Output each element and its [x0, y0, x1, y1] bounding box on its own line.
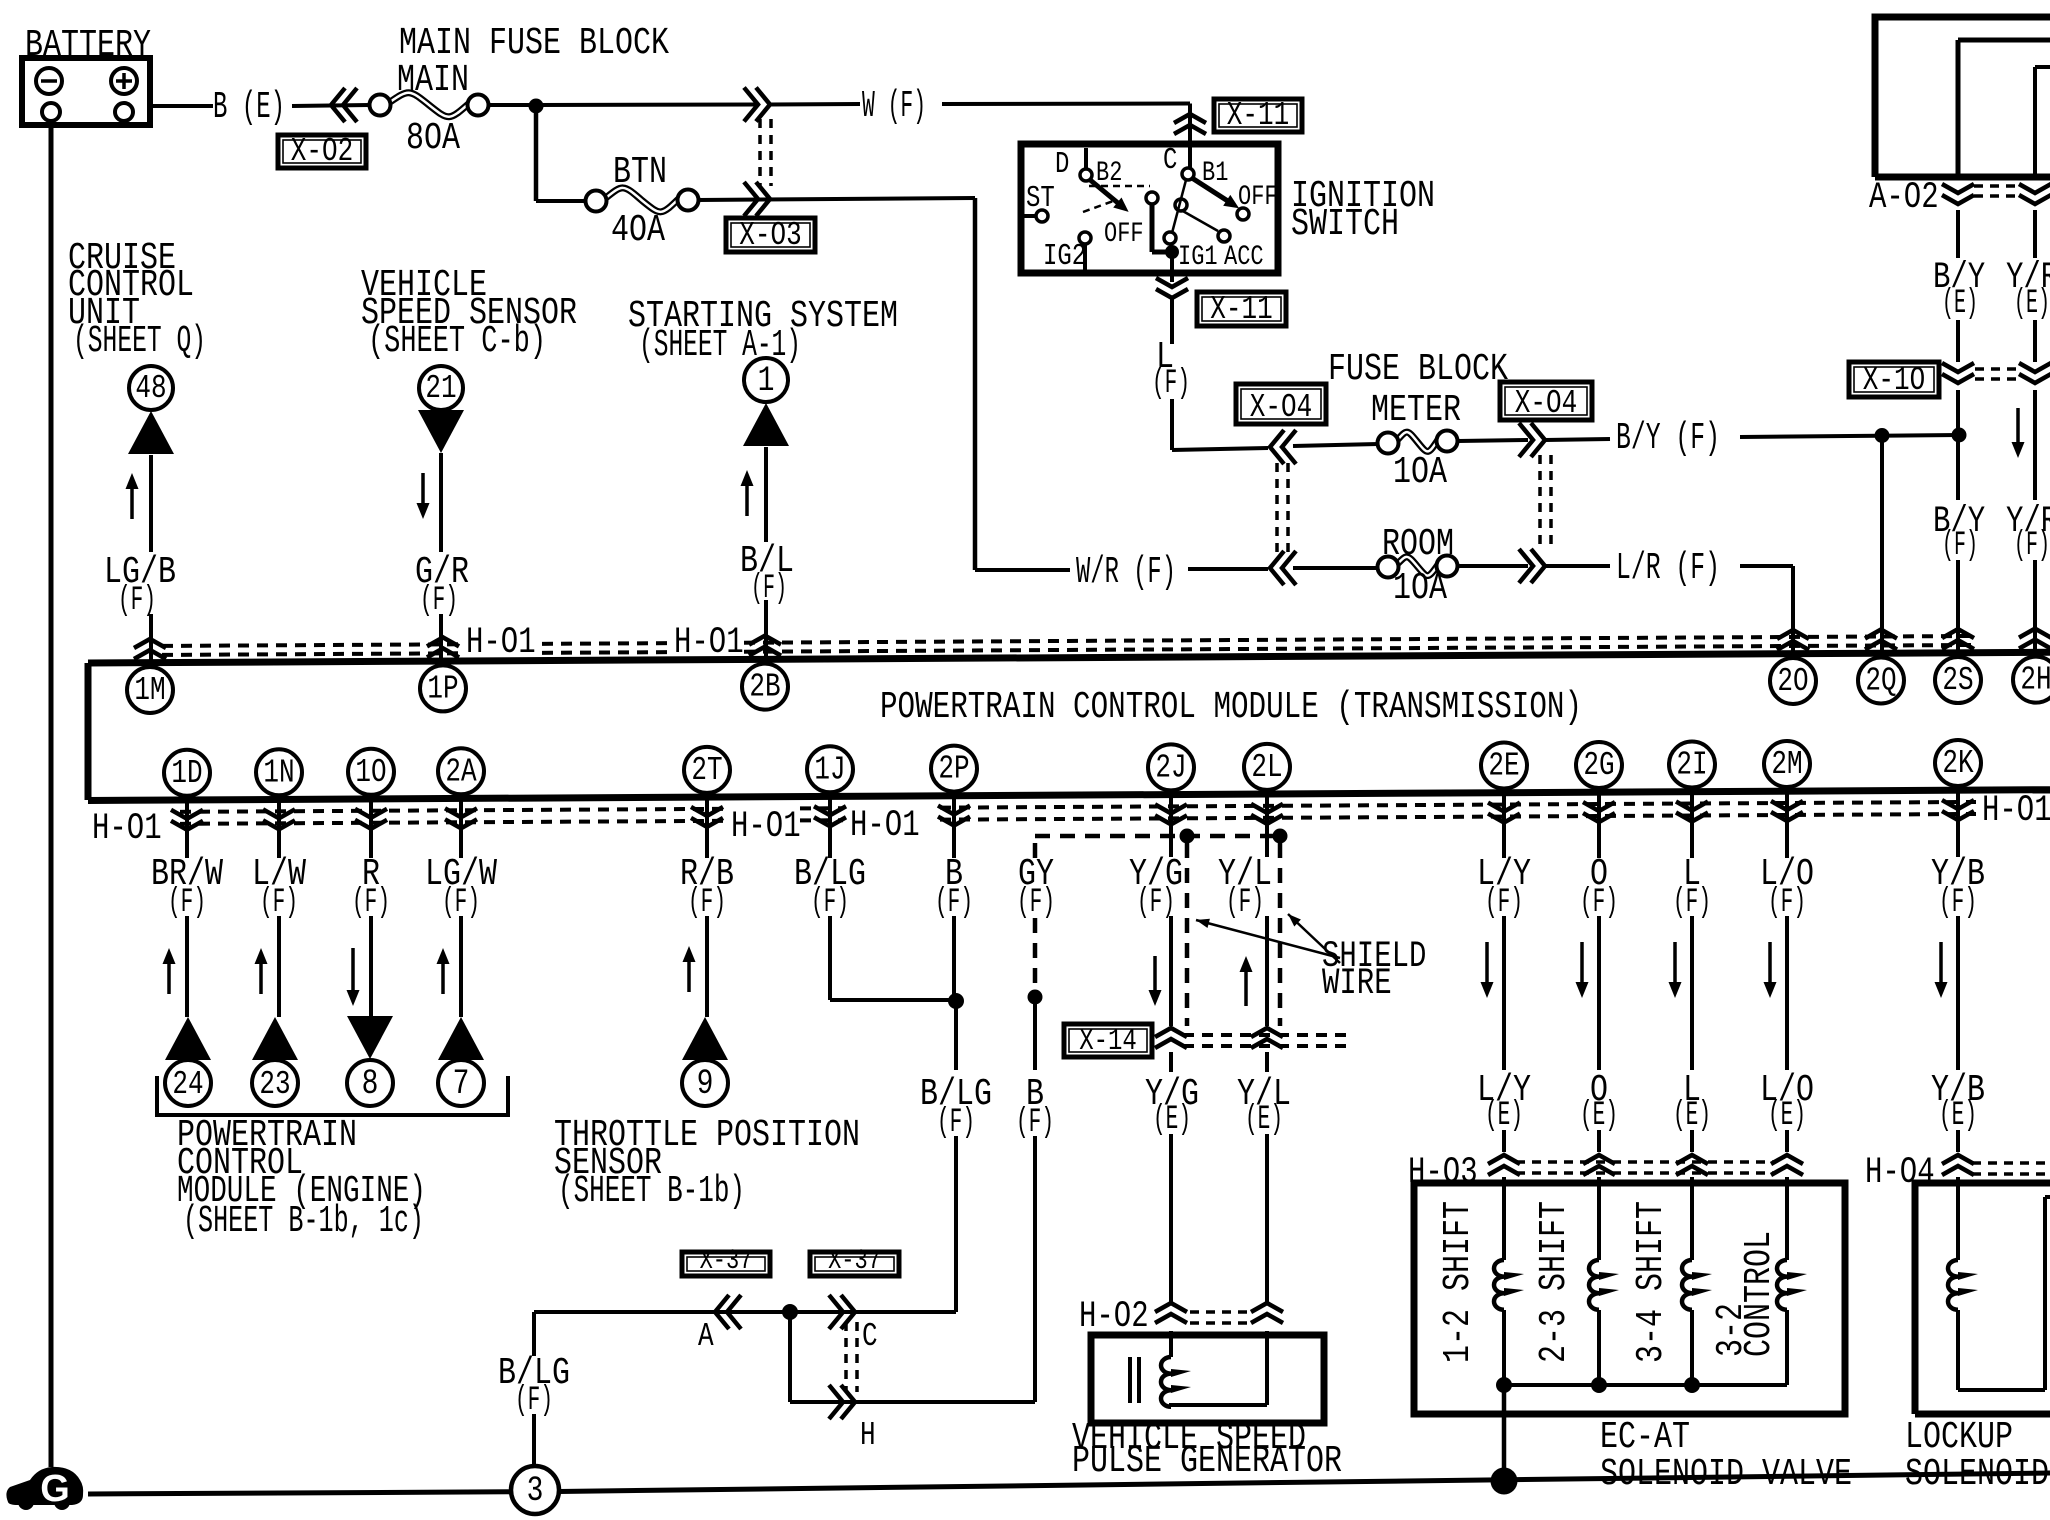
svg-text:1D: 1D [171, 755, 202, 792]
svg-text:X-1O: X-1O [1863, 362, 1925, 399]
svg-text:2K: 2K [1942, 745, 1973, 782]
svg-text:4OA: 4OA [611, 209, 665, 252]
svg-text:(E): (E) [1942, 284, 1978, 323]
svg-text:X-O4: X-O4 [1515, 385, 1577, 422]
svg-text:OFF: OFF [1238, 182, 1278, 213]
svg-text:(F): (F) [1152, 364, 1190, 403]
svg-text:2G: 2G [1583, 747, 1614, 784]
svg-text:(F): (F) [1226, 883, 1264, 922]
svg-text:(E): (E) [1485, 1096, 1523, 1135]
svg-text:H-O1: H-O1 [92, 808, 162, 850]
svg-text:2M: 2M [1771, 746, 1802, 783]
svg-text:1O: 1O [355, 754, 386, 791]
svg-text:3: 3 [527, 1470, 544, 1511]
svg-text:OFF: OFF [1104, 219, 1144, 250]
svg-text:(E): (E) [1580, 1096, 1618, 1135]
svg-text:(SHEET B-1b, 1c): (SHEET B-1b, 1c) [183, 1200, 424, 1243]
svg-text:(SHEET Q): (SHEET Q) [73, 320, 206, 363]
svg-text:H-O3: H-O3 [1408, 1152, 1478, 1194]
svg-text:21: 21 [425, 370, 456, 407]
svg-text:1P: 1P [427, 670, 458, 707]
svg-text:SWITCH: SWITCH [1291, 203, 1399, 246]
svg-text:2Q: 2Q [1865, 662, 1896, 699]
svg-text:H: H [860, 1417, 876, 1454]
svg-text:8: 8 [362, 1063, 379, 1104]
svg-text:(E): (E) [1939, 1096, 1977, 1135]
svg-text:1M: 1M [134, 672, 165, 709]
svg-text:(E): (E) [1153, 1100, 1191, 1139]
svg-text:ROOM: ROOM [1382, 523, 1454, 566]
svg-text:7: 7 [453, 1063, 470, 1104]
svg-text:X-14: X-14 [1079, 1025, 1137, 1059]
svg-text:WIRE: WIRE [1322, 963, 1392, 1005]
svg-text:X-37: X-37 [700, 1246, 753, 1277]
svg-text:2L: 2L [1251, 749, 1282, 786]
svg-text:METER: METER [1371, 389, 1461, 432]
svg-text:A: A [698, 1318, 714, 1355]
svg-text:(E): (E) [2014, 284, 2050, 323]
svg-text:23: 23 [259, 1066, 290, 1103]
svg-text:B/Y (F): B/Y (F) [1616, 417, 1720, 460]
svg-text:2I: 2I [1676, 747, 1707, 784]
svg-text:2H: 2H [2020, 662, 2050, 699]
svg-text:X-O4: X-O4 [1250, 389, 1312, 426]
svg-text:(E): (E) [1245, 1100, 1283, 1139]
svg-text:2P: 2P [938, 751, 969, 788]
svg-text:8OA: 8OA [406, 117, 460, 160]
svg-text:H-O1: H-O1 [731, 806, 801, 848]
svg-text:FUSE BLOCK: FUSE BLOCK [1328, 348, 1508, 391]
svg-text:ST: ST [1026, 182, 1055, 216]
svg-text:(E): (E) [1673, 1096, 1711, 1135]
svg-text:MAIN: MAIN [397, 59, 469, 102]
svg-text:(SHEET C-b): (SHEET C-b) [368, 320, 546, 363]
svg-text:(F): (F) [2014, 526, 2050, 565]
svg-text:IG1: IG1 [1178, 242, 1218, 273]
svg-text:X-37: X-37 [828, 1246, 881, 1277]
svg-text:2S: 2S [1942, 662, 1973, 699]
svg-text:A-O2: A-O2 [1869, 177, 1939, 219]
svg-text:2T: 2T [691, 752, 722, 789]
svg-text:ACC: ACC [1224, 242, 1264, 273]
svg-text:24: 24 [172, 1066, 203, 1103]
svg-text:C: C [862, 1318, 878, 1355]
svg-text:B2: B2 [1096, 158, 1122, 189]
svg-text:C: C [1163, 144, 1177, 178]
svg-text:1-2 SHIFT: 1-2 SHIFT [1437, 1201, 1480, 1363]
svg-text:G: G [40, 1468, 70, 1510]
svg-text:(E): (E) [1768, 1096, 1806, 1135]
svg-text:2O: 2O [1777, 663, 1808, 700]
svg-text:X-11: X-11 [1227, 97, 1289, 134]
svg-text:L/R (F): L/R (F) [1616, 547, 1720, 590]
svg-text:W/R (F): W/R (F) [1076, 551, 1176, 594]
svg-text:3-4 SHIFT: 3-4 SHIFT [1630, 1201, 1673, 1363]
svg-text:(F): (F) [1942, 526, 1978, 565]
svg-text:1OA: 1OA [1393, 567, 1447, 610]
svg-text:X-11: X-11 [1210, 291, 1272, 328]
svg-text:B (E): B (E) [213, 86, 285, 129]
svg-text:1OA: 1OA [1393, 451, 1447, 494]
svg-text:CONTROL: CONTROL [1738, 1231, 1781, 1357]
svg-text:X-O3: X-O3 [739, 217, 801, 254]
svg-text:2J: 2J [1155, 749, 1186, 786]
svg-text:H-O1: H-O1 [1982, 790, 2050, 832]
svg-text:PULSE GENERATOR: PULSE GENERATOR [1072, 1440, 1342, 1483]
svg-text:48: 48 [135, 370, 166, 407]
svg-text:2B: 2B [749, 669, 780, 706]
svg-text:X-O2: X-O2 [291, 133, 353, 170]
svg-text:2A: 2A [445, 753, 476, 790]
svg-text:(F): (F) [1017, 883, 1055, 922]
svg-text:BTN: BTN [613, 151, 667, 194]
svg-text:2-3 SHIFT: 2-3 SHIFT [1533, 1201, 1576, 1363]
svg-text:(F): (F) [751, 569, 787, 608]
svg-text:2E: 2E [1488, 748, 1519, 785]
svg-text:1J: 1J [814, 751, 845, 788]
svg-text:(SHEET B-1b): (SHEET B-1b) [558, 1170, 745, 1213]
svg-text:IG2: IG2 [1043, 240, 1086, 274]
svg-text:POWERTRAIN CONTROL MODULE (TRA: POWERTRAIN CONTROL MODULE (TRANSMISSION) [880, 686, 1582, 729]
svg-text:1: 1 [758, 360, 775, 401]
svg-text:W (F): W (F) [862, 85, 926, 128]
svg-text:H-O1: H-O1 [850, 805, 920, 847]
svg-text:9: 9 [697, 1063, 714, 1104]
svg-text:1N: 1N [263, 754, 294, 791]
svg-text:H-O4: H-O4 [1865, 1152, 1935, 1194]
svg-text:D: D [1055, 148, 1069, 182]
